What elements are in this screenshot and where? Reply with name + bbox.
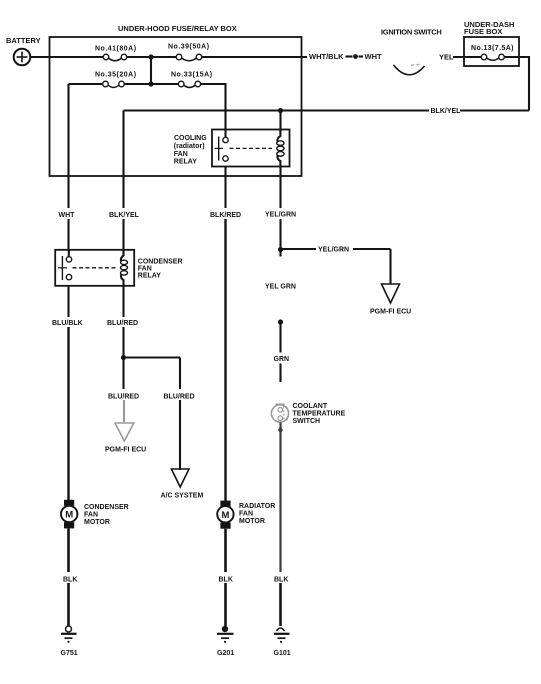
- svg-text:IGNITION SWITCH: IGNITION SWITCH: [381, 28, 442, 37]
- wire: BLK/YEL node down into cooling relay coil: [279, 111, 281, 130]
- wire: fuse41 to node: [127, 56, 176, 58]
- wire: battery to fuse No.41: [30, 56, 103, 58]
- coolant temperature switch: [271, 405, 288, 423]
- svg-text:G101: G101: [274, 650, 291, 657]
- radiator fan motor: [217, 501, 233, 529]
- svg-text:CONDENSER: CONDENSER: [84, 504, 129, 511]
- fuse No.39(50A): [176, 54, 202, 61]
- svg-text:No.39(50A): No.39(50A): [168, 44, 210, 51]
- arrow to PGM-FI ECU (left, gray): [115, 423, 134, 441]
- svg-text:WHT/BLK: WHT/BLK: [309, 52, 344, 61]
- svg-text:No.13(7.5A): No.13(7.5A): [471, 45, 514, 52]
- wire: BLK/YEL column down to condenser relay coil: [122, 111, 124, 252]
- wire: YEL to under-dash fuse: [453, 56, 481, 58]
- cooling (radiator) fan relay: [212, 130, 290, 167]
- wire: BLK/YEL horizontal run: [124, 109, 530, 111]
- wire: fuse35 to node row2: [124, 83, 178, 85]
- battery: [14, 49, 31, 66]
- svg-text:YEL GRN: YEL GRN: [265, 284, 296, 291]
- junction node BLK/YEL to cooling relay coil: [278, 108, 283, 113]
- condenser fan relay: [55, 250, 134, 286]
- wire: radiator motor to ground G201: [224, 529, 227, 626]
- svg-text:BLK/RED: BLK/RED: [210, 212, 241, 219]
- junction node row1: [148, 54, 153, 59]
- under-dash fuse box: [464, 37, 519, 66]
- condenser fan motor label: [84, 504, 129, 526]
- ground G201: [217, 626, 234, 643]
- svg-text:RADIATOR: RADIATOR: [239, 503, 275, 510]
- wire: coolant switch to ground column: [278, 423, 282, 627]
- svg-text:COOLING: COOLING: [174, 135, 207, 142]
- svg-text:WHT: WHT: [59, 212, 76, 219]
- wire: BLU/RED branch right to A/C system: [124, 358, 181, 471]
- svg-text:M: M: [65, 510, 73, 521]
- junction node YEL/GRN branch: [278, 247, 283, 257]
- svg-text:BLK/YEL: BLK/YEL: [431, 108, 462, 115]
- svg-text:UNDER-HOOD FUSE/RELAY BOX: UNDER-HOOD FUSE/RELAY BOX: [118, 24, 237, 33]
- condenser fan motor: [61, 500, 77, 529]
- svg-text:BLK: BLK: [219, 577, 233, 584]
- svg-text:BLK/YEL: BLK/YEL: [109, 212, 140, 219]
- svg-text:MOTOR: MOTOR: [239, 518, 265, 525]
- svg-text:G201: G201: [217, 650, 234, 657]
- svg-text:WHT: WHT: [365, 52, 382, 61]
- wire: row2 from WHT corner to fuse35: [69, 83, 103, 85]
- condenser relay label: [138, 259, 183, 280]
- svg-text:No.41(80A): No.41(80A): [95, 46, 137, 53]
- wire: fuse33 to corner down to cooling relay: [201, 84, 226, 131]
- svg-text:RELAY: RELAY: [174, 159, 197, 166]
- ground G101: [274, 628, 290, 643]
- wire: fuse39 to WHT/BLK label: [202, 56, 307, 58]
- svg-text:PGM-FI ECU: PGM-FI ECU: [370, 309, 411, 316]
- svg-text:No.33(15A): No.33(15A): [171, 72, 213, 79]
- ignition switch: [394, 64, 425, 75]
- coolant temperature switch label: [293, 403, 346, 425]
- svg-text:BLU/RED: BLU/RED: [108, 394, 139, 401]
- fuse No.33(15A): [178, 81, 200, 87]
- junction node GRN segment top: [278, 319, 283, 324]
- svg-text:YEL/GRN: YEL/GRN: [318, 247, 349, 254]
- svg-text:FAN: FAN: [174, 151, 188, 158]
- svg-text:(radiator): (radiator): [174, 143, 205, 150]
- svg-text:FAN: FAN: [239, 511, 253, 518]
- fuse No.41(80A): [103, 54, 127, 61]
- svg-text:FAN: FAN: [138, 266, 152, 273]
- svg-text:BLU/RED: BLU/RED: [107, 320, 138, 327]
- wire: BLU/RED condenser relay coil down: [122, 286, 124, 355]
- svg-text:COOLANT: COOLANT: [293, 403, 328, 410]
- arrow to PGM-FI ECU (right): [382, 284, 400, 303]
- svg-text:GRN: GRN: [274, 356, 290, 363]
- svg-text:YEL: YEL: [439, 53, 454, 62]
- wire: BLU/BLK condenser relay to condenser motor: [67, 286, 69, 501]
- wire: BLK/RED column cooling relay to radiator motor: [224, 167, 226, 501]
- fuse No.35(20A): [103, 81, 125, 87]
- arrow to A/C system: [171, 469, 189, 487]
- svg-text:BLU/RED: BLU/RED: [164, 394, 195, 401]
- svg-text:No.35(20A): No.35(20A): [95, 72, 137, 79]
- svg-text:A/C SYSTEM: A/C SYSTEM: [161, 493, 204, 500]
- wire: WHT column from row2 to condenser relay: [67, 84, 69, 251]
- fuse No.13(7.5A): [481, 54, 504, 60]
- connector dot between WHT/BLK and WHT: [346, 54, 364, 59]
- svg-text:MOTOR: MOTOR: [84, 519, 110, 526]
- svg-text:TEMPERATURE: TEMPERATURE: [293, 411, 346, 418]
- svg-text:BLK: BLK: [274, 577, 288, 584]
- svg-text:FUSE BOX: FUSE BOX: [464, 27, 502, 36]
- wire: YEL/GRN column cooling relay down: [279, 167, 281, 249]
- svg-text:RELAY: RELAY: [138, 273, 161, 280]
- wire: BLU/RED column to PGM-FI ECU (gray): [122, 358, 125, 423]
- svg-text:YEL/GRN: YEL/GRN: [265, 212, 296, 219]
- junction node BLU/RED branch: [121, 355, 126, 360]
- svg-text:PGM-FI ECU: PGM-FI ECU: [105, 447, 146, 454]
- wire: condenser motor to ground G751: [67, 528, 70, 626]
- svg-text:FAN: FAN: [84, 512, 98, 519]
- under-hood fuse/relay box: [50, 37, 302, 176]
- svg-text:BATTERY: BATTERY: [6, 36, 41, 45]
- radiator fan motor label: [239, 503, 275, 525]
- ground G751: [61, 626, 77, 643]
- under-dash box label: [464, 20, 514, 36]
- wire: YEL/GRN branch to PGM-FI ECU: [281, 249, 391, 284]
- svg-text:CONDENSER: CONDENSER: [138, 259, 183, 266]
- svg-text:M: M: [221, 510, 229, 521]
- wire: node down to row2: [150, 57, 152, 84]
- svg-text:G751: G751: [61, 650, 78, 657]
- wire: GRN segment: [279, 322, 281, 382]
- svg-text:BLK: BLK: [63, 577, 77, 584]
- svg-text:BLU/BLK: BLU/BLK: [52, 320, 83, 327]
- svg-text:SWITCH: SWITCH: [293, 418, 321, 425]
- junction node row2: [148, 81, 153, 86]
- wire: under-dash fuse to right corner and down: [504, 57, 529, 111]
- cooling relay label: [174, 135, 207, 166]
